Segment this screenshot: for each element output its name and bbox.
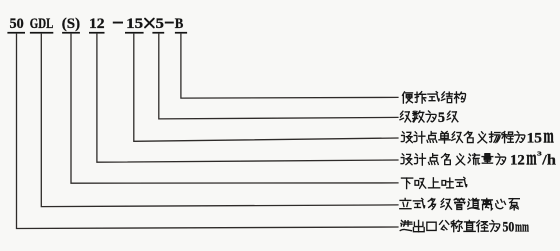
- svg-text:m: m: [543, 124, 554, 148]
- svg-text:/h: /h: [541, 152, 556, 169]
- svg-text:5: 5: [438, 109, 445, 126]
- label: inlet/outlet nominal diameter 50mm: [400, 219, 529, 236]
- leader line 15 : nominal head: [134, 34, 399, 142]
- label: bottom-suction top-discharge: [401, 177, 466, 188]
- leader line 12 : nominal flow: [97, 34, 399, 163]
- svg-text:12: 12: [89, 15, 105, 32]
- svg-text:15: 15: [126, 15, 143, 32]
- label: detachable structure: [403, 92, 466, 103]
- underline beneath GDL: [30, 32, 53, 34]
- label: design point flow 12m3/h: [401, 146, 556, 170]
- svg-text:5: 5: [156, 15, 165, 32]
- svg-text:(S): (S): [62, 15, 80, 32]
- svg-text:m: m: [526, 146, 537, 170]
- leader line 5 : number of stages: [159, 34, 399, 119]
- svg-text:15: 15: [527, 130, 543, 147]
- label: number of stages = 5: [400, 109, 458, 126]
- multiplication sign between 15 and 5: [145, 19, 154, 28]
- svg-text:B: B: [175, 15, 184, 32]
- underline beneath 12: [89, 32, 105, 34]
- svg-text:GDL: GDL: [30, 15, 54, 32]
- svg-text:12: 12: [510, 152, 525, 169]
- svg-text:50: 50: [503, 219, 515, 236]
- dash between 5 and B: [165, 22, 174, 24]
- leader line B : detachable structure: [181, 34, 399, 99]
- underline beneath 50: [7, 32, 25, 34]
- label: vertical multistage pipeline pump: [400, 198, 520, 209]
- svg-text:50: 50: [10, 15, 25, 32]
- dash between 12 and 15: [113, 22, 123, 24]
- leader line GDL : pump type: [41, 34, 398, 207]
- underline beneath 5: [152, 32, 164, 34]
- leader line 50 : nominal diameter: [17, 34, 399, 229]
- underline beneath B: [175, 32, 187, 34]
- label: design point single-stage head 15m: [401, 124, 554, 148]
- underline beneath 15: [125, 32, 144, 34]
- leader line (S) : suction type: [71, 34, 399, 184]
- underline beneath (S): [62, 32, 80, 34]
- svg-text:mm: mm: [515, 219, 529, 236]
